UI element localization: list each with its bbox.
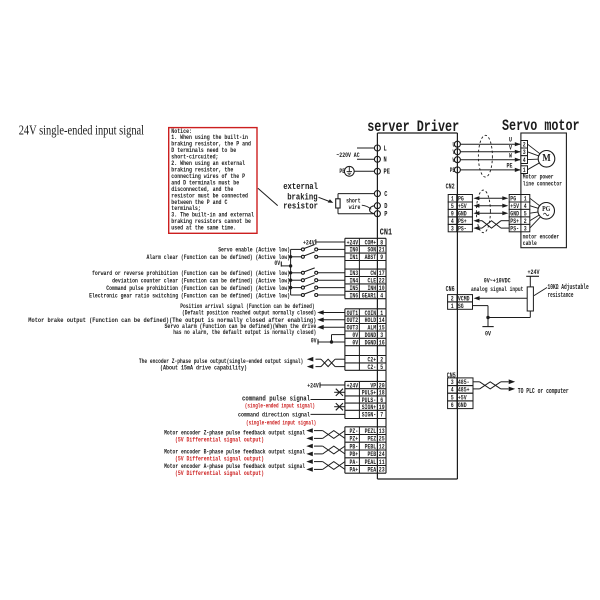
svg-text:SG: SG (458, 303, 464, 310)
svg-text:N: N (384, 157, 387, 165)
svg-text:cable: cable (523, 240, 537, 248)
svg-text:forward or reverse prohibition: forward or reverse prohibition (Function… (92, 270, 290, 277)
svg-text:24: 24 (379, 451, 385, 458)
svg-text:GND: GND (458, 402, 467, 409)
svg-text:13: 13 (379, 428, 385, 435)
svg-text:11: 11 (379, 459, 385, 466)
svg-text:PE: PE (507, 163, 513, 171)
svg-text:PA-: PA- (350, 459, 359, 466)
svg-text:resistance: resistance (548, 292, 574, 300)
svg-text:6: 6 (451, 402, 454, 409)
svg-text:wire: wire (349, 204, 361, 211)
svg-text:PEBL: PEBL (365, 443, 377, 450)
svg-text:Servo enable (Active low): Servo enable (Active low) (218, 247, 290, 254)
svg-text:Motor encoder B-phase pulse fe: Motor encoder B-phase pulse feedback out… (164, 449, 305, 456)
svg-text:(single-ended input signal): (single-ended input signal) (245, 403, 315, 410)
svg-text:+24V: +24V (307, 382, 319, 389)
svg-text:(Default position reached outp: (Default position reached output normall… (182, 310, 316, 317)
svg-text:0V: 0V (311, 337, 317, 344)
svg-text:used at the same time.: used at the same time. (171, 225, 236, 233)
svg-text:4: 4 (523, 157, 526, 164)
svg-text:line connector: line connector (523, 180, 562, 188)
svg-text:command direction signal: command direction signal (238, 412, 310, 420)
svg-text:485+: 485+ (458, 387, 470, 394)
svg-text:24V single-ended input signal: 24V single-ended input signal (19, 123, 145, 138)
svg-text:deviation counter clear (Funct: deviation counter clear (Function can be… (112, 278, 290, 285)
svg-text:PB+: PB+ (350, 451, 359, 458)
svg-text:PEAL: PEAL (365, 459, 377, 466)
svg-text:PS-: PS- (458, 225, 467, 232)
svg-text:TO PLC or computer: TO PLC or computer (518, 388, 569, 396)
svg-text:4: 4 (451, 387, 454, 394)
svg-text:~220V AC: ~220V AC (336, 152, 359, 159)
svg-text:Alarm clear (Function can be d: Alarm clear (Function can be defined) (A… (147, 254, 291, 261)
svg-text:SIGN-: SIGN- (362, 412, 377, 419)
svg-text:PB-: PB- (350, 443, 359, 450)
svg-text:C: C (384, 191, 387, 199)
svg-text:+5V: +5V (458, 394, 467, 401)
svg-text:(5V Differential signal output: (5V Differential signal output) (175, 470, 264, 477)
svg-text:M: M (542, 152, 551, 164)
svg-text:485-: 485- (458, 379, 470, 386)
svg-text:PEB: PEB (368, 451, 377, 458)
svg-text:PS-: PS- (510, 225, 519, 232)
svg-text:0V: 0V (485, 331, 492, 339)
svg-text:PG: PG (542, 204, 550, 213)
svg-text:D: D (384, 203, 387, 211)
svg-text:has no alarm, the default outp: has no alarm, the default output is norm… (173, 329, 316, 336)
svg-text:CN1: CN1 (380, 227, 393, 237)
svg-text:3: 3 (451, 225, 454, 232)
svg-text:external: external (283, 181, 318, 192)
svg-text:Command pulse prohibition (Fun: Command pulse prohibition (Function can … (106, 285, 290, 292)
svg-text:PEZL: PEZL (365, 428, 377, 435)
svg-text:3: 3 (524, 225, 527, 232)
svg-text:resistor: resistor (283, 201, 318, 212)
svg-text:PE: PE (339, 168, 345, 175)
svg-text:0V~+10VDC: 0V~+10VDC (484, 278, 511, 286)
svg-text:(About 15mA drive capability): (About 15mA drive capability) (160, 364, 247, 371)
svg-text:P: P (384, 211, 387, 219)
svg-text:3: 3 (451, 379, 454, 386)
svg-text:(single-ended input signal): (single-ended input signal) (246, 419, 316, 426)
svg-text:(5V Differential signal output: (5V Differential signal output) (175, 456, 264, 463)
svg-text:Electronic gear ratio switchin: Electronic gear ratio switching (Functio… (89, 292, 290, 299)
svg-text:PZ-: PZ- (350, 428, 359, 435)
svg-text:CN6: CN6 (446, 286, 455, 294)
svg-text:5: 5 (451, 394, 454, 401)
svg-text:CN2: CN2 (446, 184, 455, 192)
svg-text:analog signal input: analog signal input (471, 286, 523, 294)
svg-text:Servo motor: Servo motor (502, 117, 580, 135)
svg-text:Motor encoder Z-phase pulse fe: Motor encoder Z-phase pulse feedback out… (164, 430, 305, 437)
svg-text:(5V Differential signal output: (5V Differential signal output) (175, 437, 264, 444)
svg-text:3: 3 (523, 149, 526, 156)
svg-text:+24V: +24V (528, 269, 541, 277)
svg-text:1: 1 (451, 303, 454, 310)
svg-text:PE: PE (384, 169, 390, 177)
svg-text:Motor encoder A-phase pulse fe: Motor encoder A-phase pulse feedback out… (164, 463, 305, 470)
svg-text:L: L (384, 145, 387, 153)
svg-text:12: 12 (379, 443, 385, 450)
svg-text:7: 7 (380, 412, 383, 419)
